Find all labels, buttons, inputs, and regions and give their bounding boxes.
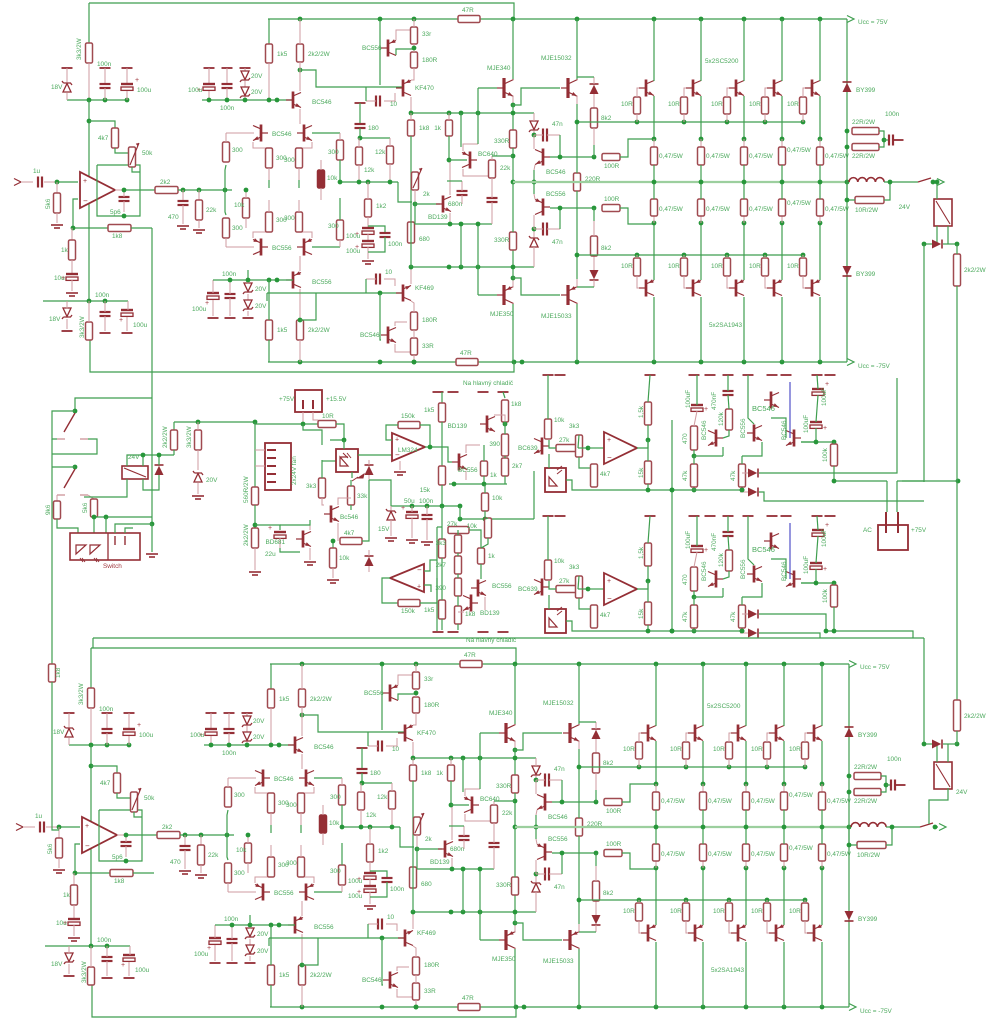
label 0,47/5W (661, 851, 686, 858)
junction (782, 782, 787, 787)
wire collector (top channel) (819, 19, 821, 81)
svg-text:BC546: BC546 (272, 131, 292, 138)
wire (299, 256, 301, 271)
resistor 1k5 (439, 600, 446, 619)
port output (bottom channel) (939, 824, 946, 831)
wire (759, 614, 826, 631)
label BD139 (480, 610, 500, 617)
capacitor 47n (top channel) (543, 129, 547, 142)
label 47R (460, 350, 472, 357)
svg-text:22k: 22k (208, 852, 219, 859)
wire emitter (bottom channel) (745, 741, 747, 784)
wire (bottom channel) (449, 825, 464, 827)
label BC546 (362, 977, 382, 984)
ground (bottom channel) (364, 906, 376, 909)
wire collector (bottom channel) (783, 942, 785, 1007)
label 150k (401, 413, 416, 420)
wire (123, 190, 125, 197)
resistor 10k (upper protection) (545, 419, 552, 439)
wire (top channel) (379, 20, 381, 85)
wire VAS drive (bottom channel) (302, 715, 404, 732)
zener diode 20V (top channel) (240, 87, 250, 98)
wire (bottom channel) (886, 826, 920, 828)
wire emitter (top channel) (653, 96, 655, 139)
label 100uF (685, 390, 692, 408)
label 33r (422, 31, 432, 38)
relay 24V (934, 762, 952, 789)
wire (top channel) (513, 112, 534, 114)
wire (106, 961, 108, 976)
wire VAS rail lower (bottom channel) (413, 911, 515, 913)
wire (595, 773, 597, 790)
resistor 10R (bottom channel) (726, 903, 733, 921)
svg-text:KF469: KF469 (417, 930, 436, 937)
junction (124, 833, 129, 838)
junction (450, 867, 455, 872)
wire (533, 135, 535, 149)
wire (197, 483, 199, 494)
label 33r (424, 676, 434, 683)
wire (593, 280, 595, 287)
svg-text:300: 300 (286, 860, 297, 867)
wire (upper protection) (696, 375, 698, 405)
svg-text:+: + (825, 522, 829, 529)
optocoupler (upper protection) (545, 466, 566, 492)
wire (top channel) (115, 148, 132, 153)
wire (bottom channel) (227, 810, 228, 835)
wire bias rail lower (top channel) (213, 279, 293, 281)
wire VAS rail lower (top channel) (411, 266, 513, 268)
resistor 100k (lower protection) (831, 585, 838, 607)
transistor 2SA1943 (bottom channel) (769, 924, 784, 941)
wire (441, 506, 443, 539)
wire (top channel) (781, 165, 783, 182)
label 3k3/2W (186, 425, 193, 448)
resistor 27k (lower protection) (556, 586, 578, 593)
resistor 15k (upper protection) (645, 461, 652, 484)
label 20V (255, 303, 267, 310)
wire (270, 813, 272, 825)
wire (247, 835, 249, 843)
wire (126, 317, 128, 331)
wire (249, 925, 251, 929)
svg-text:50k: 50k (142, 150, 153, 157)
label 22R/2W (852, 153, 876, 160)
wire (535, 780, 537, 794)
svg-text:+: + (119, 317, 123, 324)
transistor BC556 (452, 454, 467, 471)
port Ucc=-75V (top channel) (847, 359, 854, 366)
transistor MJE350 (top channel) (497, 285, 514, 305)
wire collector (bottom channel) (655, 664, 657, 726)
svg-text:LM324: LM324 (398, 447, 418, 454)
label 0,47/5W (789, 845, 814, 852)
wire (595, 866, 597, 881)
wire input (bottom channel) (59, 826, 80, 828)
svg-text:BC556: BC556 (546, 191, 566, 198)
wire (503, 392, 505, 398)
wire (384, 93, 395, 101)
zener diode 20V (bottom channel) (245, 945, 255, 956)
label 100uF (821, 388, 828, 406)
wire base rail upper (bottom channel) (579, 766, 805, 768)
wire (106, 733, 108, 745)
svg-text:10k: 10k (554, 558, 565, 565)
junction (699, 137, 704, 142)
svg-text:180R: 180R (424, 962, 440, 969)
wire (436, 603, 438, 631)
transistor 2SC5200 (bottom channel) (807, 725, 822, 742)
resistor 300 (top channel) (223, 218, 230, 238)
label 0,47/5W (825, 153, 850, 160)
label 10R (711, 101, 723, 108)
wire (369, 879, 371, 886)
wire (368, 460, 370, 465)
resistor 1k8 (bottom channel) (110, 870, 133, 877)
wire (top channel) (513, 266, 534, 268)
svg-text:680: 680 (421, 881, 432, 888)
transistor BC546 LTP (top channel) (297, 125, 312, 142)
optocoupler (336, 449, 358, 472)
svg-text:1k8: 1k8 (419, 125, 430, 132)
wire (128, 713, 130, 729)
svg-text:47R: 47R (460, 350, 472, 357)
label 27k (447, 521, 458, 528)
label 100n (222, 750, 237, 757)
label 33R (424, 988, 436, 995)
wire (412, 758, 414, 765)
wire (337, 523, 339, 541)
svg-text:MJE340: MJE340 (487, 65, 511, 72)
label BC546 (548, 814, 568, 821)
supply symbol (62, 67, 73, 69)
resistor 10R (bottom channel) (764, 742, 771, 759)
svg-text:33k: 33k (357, 493, 368, 500)
junction (122, 214, 127, 219)
resistor 4k7 (top channel) (112, 128, 119, 148)
transistor MJE340 (bottom channel) (499, 723, 516, 743)
wire (536, 839, 537, 844)
svg-text:0,47/5W: 0,47/5W (661, 798, 686, 805)
svg-text:0,47/5W: 0,47/5W (706, 153, 731, 160)
wire (391, 783, 393, 791)
junction (409, 265, 481, 270)
svg-text:47k: 47k (682, 470, 689, 481)
ground (top channel) (66, 293, 78, 296)
resistor 560R/2W (252, 487, 259, 505)
resistor 300 (bottom channel) (225, 787, 232, 807)
wire (184, 850, 186, 869)
junction (742, 137, 747, 142)
svg-text:BC639: BC639 (518, 586, 538, 593)
junction (73, 409, 78, 414)
wire (301, 901, 303, 916)
label 0,47/5W (787, 200, 812, 207)
wire feedback node (top channel) (131, 227, 152, 229)
label 10R (713, 908, 725, 915)
svg-text:680n: 680n (450, 846, 465, 853)
input port (top channel) (14, 179, 21, 186)
wire (413, 355, 415, 362)
label 1u (33, 168, 41, 175)
svg-text:Na hlavný chladič: Na hlavný chladič (463, 380, 514, 387)
label 10R (749, 101, 761, 108)
svg-text:1k5: 1k5 (424, 407, 435, 414)
wire (115, 189, 124, 191)
label 0,47/5W (749, 153, 774, 160)
junction (73, 871, 78, 876)
svg-text:10R: 10R (787, 263, 799, 270)
label 100n (97, 61, 112, 68)
svg-text:10R: 10R (751, 746, 763, 753)
supply symbol (705, 515, 716, 517)
label 390 (435, 585, 446, 592)
wire (535, 776, 537, 779)
wire (535, 758, 537, 766)
wire output rail (top channel) (513, 181, 849, 183)
label 0,47/5W (751, 851, 776, 858)
wire (bottom channel) (91, 766, 117, 773)
wire (413, 330, 415, 338)
transistor KF469 (bottom channel) (398, 930, 413, 947)
label 2k2/2W (964, 267, 987, 274)
transistor 2SC5200 (bottom channel) (688, 725, 703, 742)
transistor BC546 cascode (top channel) (286, 92, 301, 109)
wire (upper protection) (728, 395, 729, 409)
label 2k2 (162, 824, 173, 831)
capacitor 470nF (lower protection) (723, 532, 734, 536)
junction (415, 847, 420, 852)
wire (411, 506, 413, 512)
label MJE15033 (543, 958, 574, 965)
svg-text:0,47/5W: 0,47/5W (749, 153, 774, 160)
junction (244, 188, 249, 193)
junction (832, 629, 837, 634)
label 470 (168, 214, 179, 221)
resistor 10k (485, 518, 492, 538)
label 100R (606, 841, 622, 848)
supply symbol (478, 631, 489, 633)
wire (68, 946, 70, 954)
wire (182, 190, 184, 200)
wire (bottom channel) (579, 931, 596, 933)
capacitor 680n (bottom channel) (459, 836, 470, 840)
svg-text:10k: 10k (329, 820, 340, 827)
label 12k (366, 812, 377, 819)
wire (449, 213, 451, 224)
wire (bottom channel) (361, 773, 363, 783)
resistor 10R (bottom channel) (726, 742, 733, 759)
ground (192, 496, 204, 499)
potentiometer 50k (bottom channel) (131, 792, 138, 812)
wire (299, 62, 301, 70)
wire (bottom channel) (494, 800, 515, 802)
wire (255, 423, 318, 425)
label 10R (670, 908, 682, 915)
label 1k8 (114, 878, 125, 885)
wire emitter (top channel) (653, 223, 655, 280)
wire (897, 480, 958, 482)
wire (767, 921, 769, 933)
wire (lower protection) (547, 516, 549, 560)
wire (bottom channel) (655, 810, 657, 827)
resistor 4k7 (lower protection) (591, 605, 598, 628)
label 470nF (711, 533, 718, 551)
wire (593, 256, 595, 270)
wire (943, 243, 957, 245)
wire (483, 445, 485, 461)
switch mute 2 (57, 469, 88, 495)
wire (228, 891, 256, 893)
label 47n (554, 766, 565, 773)
supply symbol (124, 977, 135, 979)
junction (824, 629, 829, 634)
svg-text:10R: 10R (787, 101, 799, 108)
wire (top channel) (884, 182, 890, 200)
resistor 220R (bottom channel) (576, 818, 583, 836)
supply symbol (204, 67, 215, 69)
junction (513, 910, 518, 915)
wire (684, 276, 686, 288)
label 15k (420, 487, 431, 494)
label 1k8 (465, 611, 476, 618)
svg-text:BC556: BC556 (274, 890, 294, 897)
label 8k2 (601, 115, 612, 122)
wire (lower protection) (693, 628, 695, 631)
wire (top channel) (593, 208, 595, 221)
junction (300, 963, 305, 968)
label 10k (327, 175, 338, 182)
wire (694, 552, 697, 567)
label 8k2 (601, 245, 612, 252)
wire (902, 480, 924, 482)
diode BY399 (bottom channel) (845, 727, 854, 737)
label 20V (257, 931, 269, 938)
svg-text:BY399: BY399 (858, 732, 878, 739)
resistor 1k2 (top channel) (365, 199, 372, 217)
wire (bottom channel) (886, 827, 892, 845)
resistor 0,47/5W (top channel) (651, 199, 658, 216)
wire (410, 97, 412, 113)
zener diode (bottom channel) (531, 881, 541, 892)
wire (726, 255, 728, 258)
label 10R (670, 746, 682, 753)
svg-text:100uF: 100uF (685, 531, 692, 549)
wire (upper protection) (727, 375, 729, 391)
resistor 10k (top channel) (243, 198, 250, 218)
wire (448, 113, 450, 120)
label MJE350 (492, 956, 516, 963)
svg-text:10R/2W: 10R/2W (855, 207, 879, 214)
capacitor 180 (bottom channel) (357, 769, 368, 773)
supply symbol (242, 712, 253, 714)
junction (196, 420, 258, 425)
resistor 0,47/5W (bottom channel) (700, 792, 707, 810)
wire (228, 713, 230, 729)
label 2k2/2W (310, 972, 333, 979)
label 20V (257, 948, 269, 955)
wire (384, 279, 395, 286)
svg-text:+: + (607, 578, 611, 585)
transistor 2SA1943 (top channel) (686, 279, 701, 296)
label 2k2/2W (308, 327, 331, 334)
svg-text:22k: 22k (502, 810, 513, 817)
wire emitter (bottom channel) (655, 741, 657, 784)
wire (512, 279, 514, 287)
resistor 300 (bottom channel) (339, 785, 346, 805)
supply symbol (723, 374, 734, 376)
resistor 10R/2W (top channel) (855, 197, 884, 204)
junction (814, 581, 837, 586)
label MJE340 (487, 65, 511, 72)
wire (71, 280, 73, 291)
svg-text:0,47/5W: 0,47/5W (751, 798, 776, 805)
svg-text:0,47/5W: 0,47/5W (825, 206, 850, 213)
wire (426, 519, 428, 540)
svg-text:BC556: BC556 (312, 279, 332, 286)
label BC546 (314, 744, 334, 751)
junction (411, 910, 483, 915)
wire (458, 611, 464, 613)
resistor 1k (481, 461, 488, 476)
label 680 (419, 236, 430, 243)
wire (upper protection) (548, 454, 550, 468)
wire emitter (top channel) (743, 96, 745, 139)
label 100u (348, 878, 363, 885)
label 1,5k (638, 405, 645, 418)
wire (244, 97, 246, 100)
wire emitter (top channel) (743, 223, 745, 280)
resistor 22k (top channel) (196, 200, 203, 220)
label AC (863, 527, 872, 534)
wire (301, 934, 303, 965)
wire (upper protection) (566, 480, 594, 490)
svg-text:330R: 330R (494, 237, 510, 244)
transistor 2SA1943 (top channel) (729, 279, 744, 296)
resistor 10k (482, 493, 489, 511)
svg-text:100u: 100u (192, 306, 207, 313)
wire (412, 912, 414, 929)
wire (413, 946, 416, 957)
wire (bottom channel) (514, 827, 516, 877)
svg-text:100n: 100n (97, 61, 112, 68)
wire collector (top channel) (653, 297, 655, 362)
label 10k (554, 558, 565, 565)
wire (534, 165, 535, 170)
transistor BC546 (top channel) (381, 327, 396, 344)
wire (top channel) (512, 182, 514, 232)
wire (767, 733, 769, 742)
resistor 2k2/2W (954, 700, 961, 731)
resistor 10R (top channel) (762, 258, 769, 276)
label 100uF (803, 415, 810, 433)
label 22k (500, 165, 511, 172)
wire (top channel) (266, 293, 268, 301)
wire (653, 216, 655, 223)
supply symbol (240, 67, 251, 69)
wire (94, 516, 152, 518)
junction (534, 778, 539, 783)
wire (745, 784, 747, 792)
wire (bottom channel) (578, 900, 580, 924)
wire (638, 759, 640, 767)
svg-text:5x2SA1943: 5x2SA1943 (709, 322, 742, 329)
junction (646, 488, 745, 493)
svg-text:BY399: BY399 (856, 87, 876, 94)
svg-text:BC556: BC556 (492, 583, 512, 590)
svg-text:20V: 20V (257, 948, 269, 955)
wire inverting input (bottom channel) (75, 844, 80, 873)
